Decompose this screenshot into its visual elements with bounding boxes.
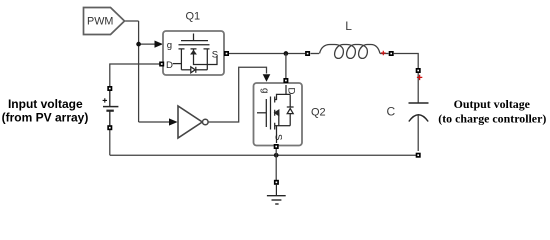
port square: inductor right — [389, 51, 394, 56]
Q2 icon bottom tap rail — [275, 125, 291, 127]
node: junction at Q2 drain tap — [284, 51, 289, 56]
Q1 icon gate stub from top — [193, 34, 195, 41]
battery short plate — [106, 110, 113, 112]
capacitor top plate — [409, 102, 429, 104]
mosfet Q2 block outline — [254, 83, 303, 146]
port square: Q2 S — [274, 144, 279, 149]
Q1 icon channel bar — [179, 44, 210, 46]
capacitor top lead — [417, 73, 419, 103]
ground bar 2 — [272, 199, 282, 201]
red plus polarity mark at capacitor top — [417, 75, 422, 80]
ground bar 3 — [275, 203, 278, 205]
port square: battery + terminal — [107, 86, 112, 91]
port square: Q2 D — [283, 78, 288, 83]
wire: battery plus up to top corner and right to Q1 drain — [110, 64, 160, 86]
arrowhead into Q2 gate (down) — [263, 74, 271, 82]
Q2 icon middle tap line — [278, 113, 280, 126]
dc voltage source V1 (input battery) — [103, 91, 118, 126]
svg-text:g: g — [259, 88, 270, 93]
ground lead — [275, 185, 277, 196]
svg-text:Q1: Q1 — [186, 11, 201, 23]
wire: junction to Q1 gate — [139, 43, 156, 45]
Q1 icon drain connector from D port — [173, 63, 182, 65]
wire: rail junction down to ground — [275, 155, 277, 180]
inductor lead-out — [380, 53, 389, 55]
Q2 icon diode cathode bar — [287, 106, 294, 108]
ground bar 1 — [267, 195, 286, 197]
wire: NOT output to Q2 gate — [208, 67, 266, 122]
capacitor C — [409, 73, 429, 151]
Q1 icon diode cathode bar — [195, 67, 197, 73]
capacitor bottom lead — [417, 115, 419, 151]
port square: ground — [274, 180, 279, 185]
node: junction of PWM net — [136, 42, 141, 47]
port square: capacitor top — [416, 68, 421, 73]
svg-text:L: L — [345, 19, 352, 33]
wire: junction down to Q2 drain — [285, 54, 287, 79]
Q2 icon diode rail down from drain — [289, 94, 291, 107]
arrowhead into NOT gate input — [169, 118, 178, 125]
battery long plate — [103, 106, 118, 108]
node: junction bottom rail to ground — [274, 153, 279, 158]
svg-text:(from PV array): (from PV array) — [2, 111, 89, 125]
Q1 icon gate plate bar — [181, 40, 208, 42]
Q2 icon gate lead from left — [257, 112, 266, 114]
Q2 icon gate plate bar — [265, 99, 267, 127]
Q1 icon diode cathode line — [196, 69, 208, 71]
Q2 icon drain stub up — [285, 85, 287, 94]
capacitor curved bottom plate — [409, 115, 428, 122]
Q1 icon left tap down — [180, 49, 182, 70]
svg-text:D: D — [286, 88, 297, 95]
battery internal lead top — [109, 91, 111, 107]
not gate U1 — [178, 106, 208, 138]
Q2 icon body arrow (left) — [275, 110, 279, 115]
Q2 icon diode bottom lead — [289, 114, 291, 126]
red plus polarity mark at inductor output — [381, 51, 386, 56]
not gate triangle — [178, 106, 202, 138]
svg-text:(to charge controller): (to charge controller) — [438, 112, 546, 126]
arrowhead into Q1 gate port — [155, 41, 164, 48]
Q1 icon body arrow (up) — [191, 51, 195, 54]
battery internal lead bottom — [109, 111, 111, 126]
not gate bubble — [203, 119, 209, 125]
inductor coil — [320, 45, 381, 59]
mosfet Q1 block outline — [163, 31, 224, 75]
Q1 icon diode anode line — [181, 69, 190, 71]
battery plus sign — [103, 98, 107, 102]
PWM source tag — [84, 8, 125, 35]
wire: bottom ground rail — [110, 154, 418, 156]
mosfet Q2 icon — [257, 85, 294, 143]
svg-text:g: g — [167, 40, 172, 51]
Q2 icon top tap to drain rail — [275, 94, 291, 99]
Q2 icon channel bar — [270, 97, 272, 130]
svg-text:Output voltage: Output voltage — [454, 97, 530, 111]
svg-text:Input voltage: Input voltage — [8, 97, 83, 111]
ground — [267, 185, 286, 204]
wire: Q2 source down to rail — [275, 149, 277, 155]
wire: vertical riser from PWM down to NOT gate input level — [138, 21, 140, 122]
svg-text:D: D — [166, 60, 173, 71]
Q1 icon contact plates — [179, 48, 210, 50]
Q1 icon middle tap with body arrow — [193, 49, 195, 51]
mosfet Q1 icon — [173, 34, 217, 73]
svg-text:Q2: Q2 — [311, 106, 326, 118]
wire: PWM tag output to riser — [125, 20, 139, 22]
Q1 icon right tap down — [206, 49, 208, 70]
svg-text:PWM: PWM — [87, 15, 113, 27]
Q1 icon middle tap to source line — [194, 55, 218, 65]
inductor L — [311, 45, 389, 59]
wire: battery minus down to bottom rail corner — [109, 130, 111, 155]
inductor lead-in — [311, 53, 320, 55]
wire: Q1 source to inductor — [229, 53, 305, 55]
port square: Q1 S — [224, 51, 229, 56]
Q2 icon diode triangle — [287, 109, 293, 114]
wire: NOT gate input horizontal — [139, 121, 170, 123]
wire: inductor to capacitor top corner — [394, 54, 419, 69]
Q2 icon contact plates — [274, 97, 276, 130]
svg-text:C: C — [387, 104, 396, 118]
port square: inductor left — [305, 51, 310, 56]
Q2 icon source drop — [276, 126, 278, 143]
port square: capacitor bottom at rail corner — [416, 153, 421, 158]
svg-text:S: S — [272, 134, 283, 140]
Q1 icon diode triangle — [191, 67, 195, 73]
port square: battery - terminal — [107, 125, 112, 130]
port square: Q1 D — [159, 62, 164, 67]
